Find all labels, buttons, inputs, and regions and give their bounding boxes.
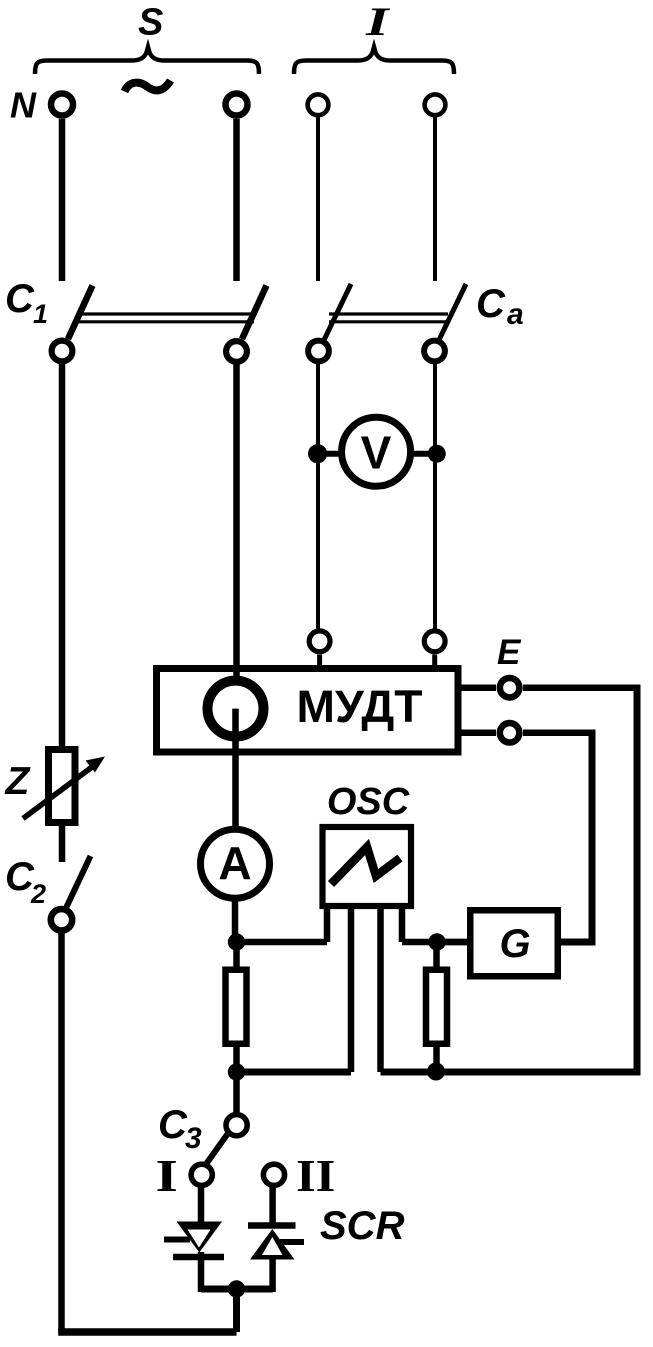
svg-text:1: 1 xyxy=(33,299,48,329)
svg-text:C: C xyxy=(158,1103,188,1147)
svg-text:C: C xyxy=(476,282,506,326)
svg-text:3: 3 xyxy=(185,1122,202,1155)
svg-text:V: V xyxy=(361,427,392,479)
svg-text:G: G xyxy=(499,922,530,966)
svg-text:Z: Z xyxy=(5,760,32,803)
svg-text:C: C xyxy=(5,277,35,321)
svg-text:I: I xyxy=(156,1151,178,1201)
svg-text:A: A xyxy=(218,837,251,889)
svg-text:a: a xyxy=(507,298,524,331)
svg-text:SCR: SCR xyxy=(320,1204,405,1248)
svg-text:OSC: OSC xyxy=(327,781,410,823)
svg-text:E: E xyxy=(497,633,522,672)
svg-text:N: N xyxy=(10,85,37,126)
svg-text:I: I xyxy=(365,0,391,44)
svg-text:2: 2 xyxy=(30,879,46,909)
svg-text:МУДТ: МУДТ xyxy=(297,681,423,732)
svg-text:S: S xyxy=(138,2,163,44)
svg-text:II: II xyxy=(296,1151,335,1201)
